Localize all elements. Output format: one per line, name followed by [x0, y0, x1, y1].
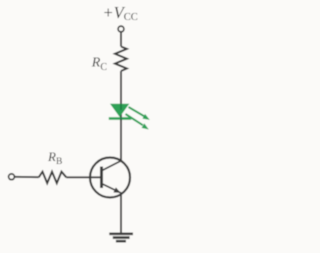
wire RB to base — [66, 176, 100, 178]
LED (green) — [109, 104, 131, 120]
wire through LED (under symbol) — [120, 104, 122, 121]
wire input terminal to RB — [15, 176, 39, 178]
wire VCC terminal to RC — [120, 32, 122, 47]
resistor RC — [115, 47, 127, 72]
wire emitter to ground — [120, 193, 122, 234]
terminal +VCC — [118, 26, 124, 32]
input terminal — [9, 174, 15, 180]
transistor Q1 (NPN) — [90, 158, 130, 198]
resistor RB — [39, 172, 67, 183]
LED light emission arrows — [126, 107, 150, 130]
wire RC to LED — [120, 71, 122, 104]
wire LED to collector — [120, 120, 122, 162]
ground — [109, 234, 133, 241]
